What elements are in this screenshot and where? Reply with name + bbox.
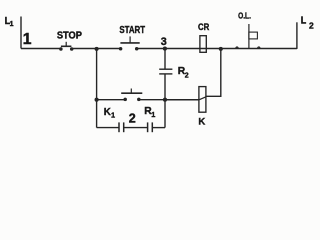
svg-text:1: 1: [23, 31, 32, 48]
svg-text:1: 1: [111, 111, 115, 120]
svg-text:1: 1: [151, 110, 155, 119]
svg-text:3: 3: [161, 36, 167, 48]
svg-text:START: START: [119, 24, 145, 35]
svg-text:K: K: [198, 117, 205, 128]
svg-text:O.L.: O.L.: [238, 11, 251, 21]
svg-text:STOP: STOP: [57, 30, 83, 41]
svg-text:2: 2: [309, 20, 314, 30]
svg-text:CR: CR: [198, 21, 209, 32]
svg-text:1: 1: [10, 21, 14, 28]
svg-text:K: K: [104, 107, 111, 118]
svg-text:2: 2: [185, 73, 189, 80]
svg-text:L: L: [301, 15, 307, 27]
svg-text:2: 2: [129, 111, 136, 125]
